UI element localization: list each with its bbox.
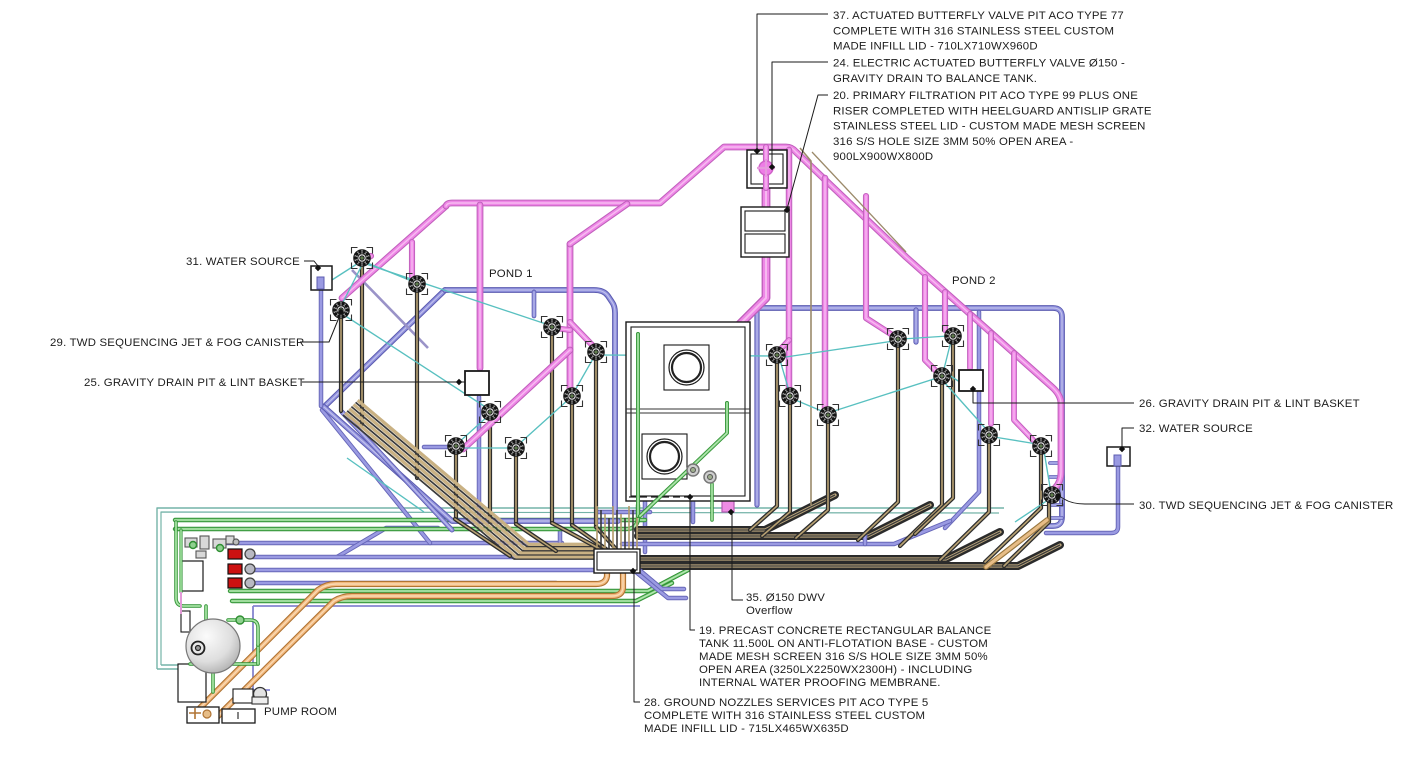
svg-text:19. PRECAST CONCRETE RECTANGUL: 19. PRECAST CONCRETE RECTANGULAR BALANCE: [699, 625, 992, 637]
svg-text:POND 2: POND 2: [952, 275, 996, 287]
svg-text:900LX900WX800D: 900LX900WX800D: [833, 151, 933, 163]
svg-text:COMPLETE WITH 316 STAINLESS ST: COMPLETE WITH 316 STAINLESS STEEL CUSTOM: [644, 710, 925, 722]
svg-text:POND 1: POND 1: [489, 268, 533, 280]
svg-text:OPEN AREA (3250LX2250WX2300H): OPEN AREA (3250LX2250WX2300H) - INCLUDIN…: [699, 664, 972, 676]
svg-text:MADE INFILL LID - 715LX465WX63: MADE INFILL LID - 715LX465WX635D: [644, 723, 849, 735]
svg-text:316 S/S HOLE SIZE 3MM 50% OPEN: 316 S/S HOLE SIZE 3MM 50% OPEN AREA -: [833, 136, 1073, 148]
svg-text:37. ACTUATED BUTTERFLY VALVE P: 37. ACTUATED BUTTERFLY VALVE PIT ACO TYP…: [833, 10, 1124, 22]
svg-text:35. Ø150 DWV: 35. Ø150 DWV: [746, 592, 825, 604]
svg-text:31. WATER SOURCE: 31. WATER SOURCE: [186, 256, 300, 268]
svg-text:STAINLESS STEEL LID - CUSTOM M: STAINLESS STEEL LID - CUSTOM MADE MESH S…: [833, 121, 1146, 133]
svg-text:28. GROUND NOZZLES SERVICES PI: 28. GROUND NOZZLES SERVICES PIT ACO TYPE…: [644, 697, 928, 709]
svg-text:TANK 11.500L ON ANTI-FLOTATION: TANK 11.500L ON ANTI-FLOTATION BASE - CU…: [699, 638, 988, 650]
svg-text:32. WATER SOURCE: 32. WATER SOURCE: [1139, 423, 1253, 435]
svg-text:INTERNAL WATER PROOFING MEMBRA: INTERNAL WATER PROOFING MEMBRANE.: [699, 677, 941, 689]
svg-text:30. TWD SEQUENCING JET & FOG C: 30. TWD SEQUENCING JET & FOG CANISTER: [1139, 500, 1393, 512]
svg-text:26. GRAVITY DRAIN PIT & LINT B: 26. GRAVITY DRAIN PIT & LINT BASKET: [1139, 398, 1360, 410]
svg-text:29. TWD SEQUENCING JET & FOG C: 29. TWD SEQUENCING JET & FOG CANISTER: [50, 337, 304, 349]
svg-text:COMPLETE WITH 316 STAINLESS ST: COMPLETE WITH 316 STAINLESS STEEL CUSTOM: [833, 25, 1114, 37]
svg-text:PUMP ROOM: PUMP ROOM: [264, 706, 337, 718]
svg-text:RISER COMPLETED WITH HEELGUARD: RISER COMPLETED WITH HEELGUARD ANTISLIP …: [833, 105, 1152, 117]
svg-text:MADE MESH SCREEN 316 S/S HOLE: MADE MESH SCREEN 316 S/S HOLE SIZE 3MM 5…: [699, 651, 988, 663]
svg-text:24. ELECTRIC ACTUATED BUTTERFL: 24. ELECTRIC ACTUATED BUTTERFLY VALVE Ø1…: [833, 58, 1125, 70]
svg-text:GRAVITY DRAIN TO BALANCE TANK.: GRAVITY DRAIN TO BALANCE TANK.: [833, 73, 1037, 85]
svg-text:25. GRAVITY DRAIN PIT & LINT B: 25. GRAVITY DRAIN PIT & LINT BASKET: [84, 377, 305, 389]
svg-text:MADE INFILL LID - 710LX710WX96: MADE INFILL LID - 710LX710WX960D: [833, 41, 1038, 53]
svg-text:Overflow: Overflow: [746, 605, 793, 617]
svg-text:20. PRIMARY FILTRATION PIT ACO: 20. PRIMARY FILTRATION PIT ACO TYPE 99 P…: [833, 90, 1138, 102]
